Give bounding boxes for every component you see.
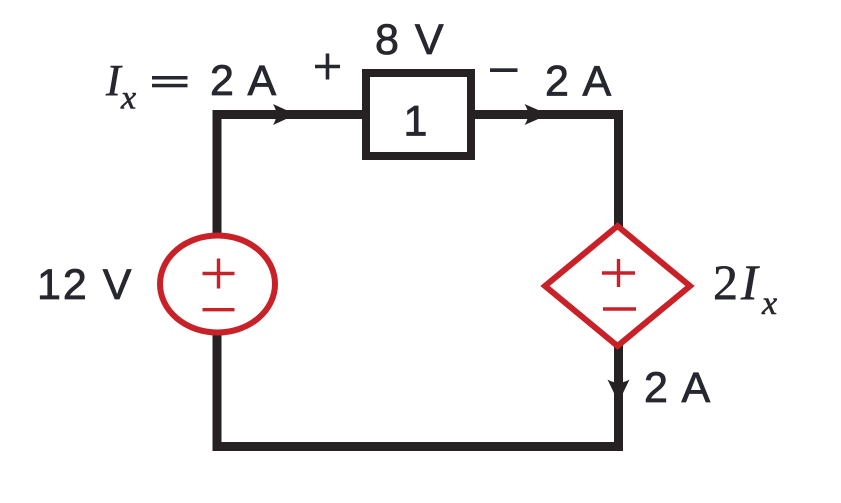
minus right of box [490,68,518,72]
svg-text:2 A: 2 A [210,57,278,105]
plus inside circle [203,259,235,289]
arrow 2A on top-right wire [525,104,549,125]
svg-text:12 V: 12 V [37,261,133,309]
svg-text:8 V: 8 V [375,16,446,64]
wire loop [217,115,619,447]
equals sign [152,76,188,80]
svg-text:1: 1 [404,98,430,146]
svg-text:2 A: 2 A [545,58,613,106]
voltage source 12V circle [160,236,275,333]
plus left of box [315,54,340,80]
arrow 2A downward on right wire [608,380,630,403]
minus inside diamond [603,307,636,310]
svg-text:x: x [761,285,777,322]
svg-text:2: 2 [713,254,738,310]
plus inside diamond [602,259,635,287]
minus inside circle [203,308,235,311]
arrow Ix on top-left wire [273,104,296,125]
svg-text:x: x [120,80,136,117]
dependent source diamond [545,226,690,346]
svg-text:I: I [740,254,760,310]
svg-text:2 A: 2 A [644,364,712,412]
element 1 box [366,73,471,156]
